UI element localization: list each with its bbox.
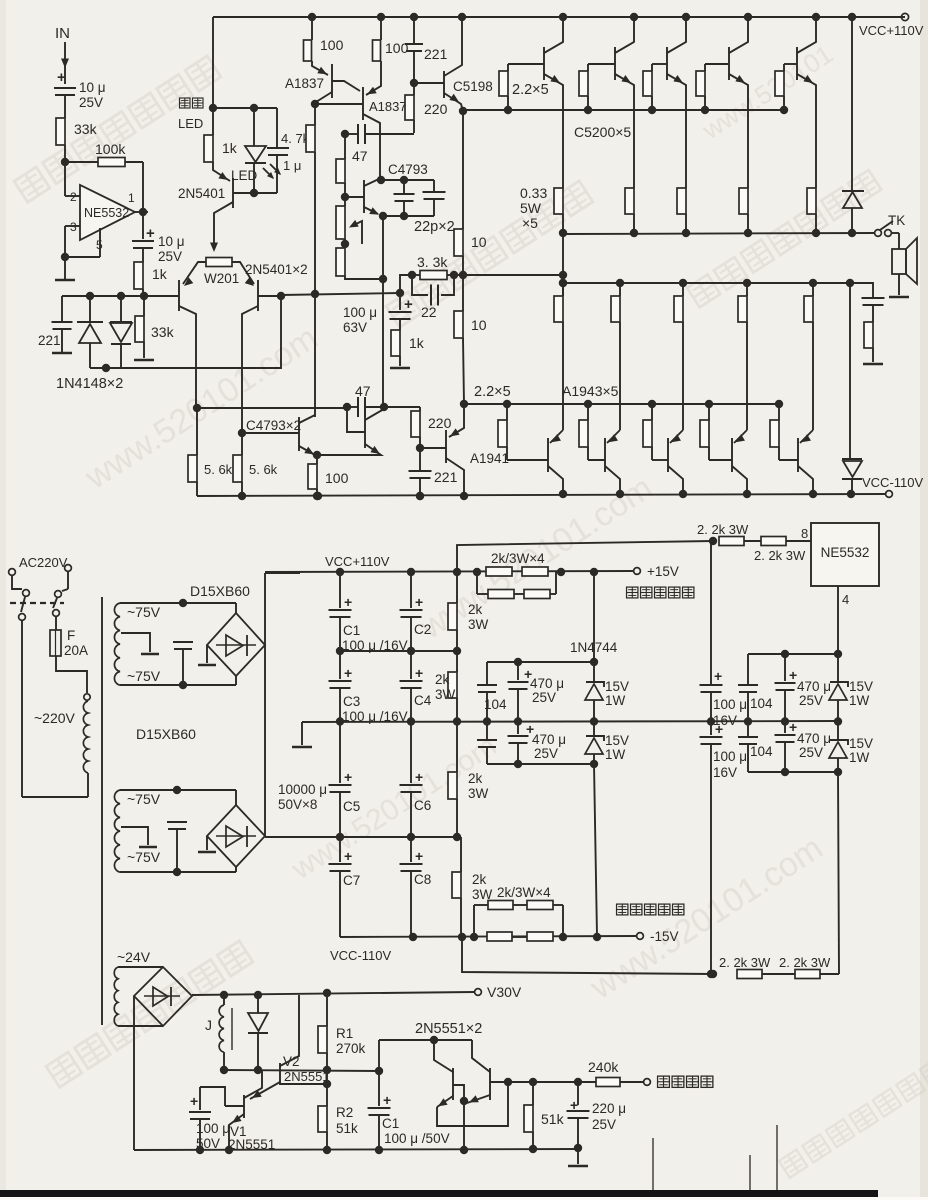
svg-text:47: 47 bbox=[352, 148, 368, 164]
center tap sec1 bbox=[121, 633, 150, 652]
node Vbe multiplier top bbox=[341, 193, 349, 201]
svg-text:25V: 25V bbox=[534, 746, 558, 761]
svg-text:10000 μ: 10000 μ bbox=[278, 782, 327, 797]
resistor 2.2 base Q8 bbox=[507, 64, 509, 71]
svg-text:C2: C2 bbox=[414, 622, 431, 637]
resistor 2.2 base Q17 bbox=[775, 400, 783, 408]
svg-text:+: + bbox=[404, 296, 413, 313]
node V1 emitter ground bbox=[225, 1146, 233, 1154]
wire VAS chain bbox=[344, 134, 346, 159]
transformer core bbox=[101, 597, 103, 1025]
diode LED red bbox=[253, 108, 255, 146]
svg-text:C1: C1 bbox=[382, 1116, 399, 1131]
svg-text:16V: 16V bbox=[713, 765, 737, 780]
svg-text:C3: C3 bbox=[343, 694, 360, 709]
resistor 2k 3W no3 bbox=[456, 722, 458, 772]
fuse F 20A bbox=[55, 617, 57, 630]
zener diode 15V d bbox=[837, 721, 839, 740]
capacitor C4 bank bbox=[410, 651, 412, 679]
svg-text:100k: 100k bbox=[95, 141, 126, 157]
wire rail y654 right bbox=[748, 653, 838, 655]
node LED bias top bbox=[209, 104, 217, 112]
wire negative base rail y404 bbox=[464, 403, 779, 405]
svg-text:R2: R2 bbox=[336, 1105, 353, 1120]
resistor 5.6k left bbox=[193, 404, 201, 412]
svg-text:NE5532: NE5532 bbox=[84, 206, 129, 220]
resistor 2.2 base Q13 bbox=[503, 400, 511, 408]
svg-text:100 μ: 100 μ bbox=[196, 1121, 230, 1136]
LED arrows bbox=[263, 168, 273, 178]
resistor 10 upper bbox=[462, 111, 464, 229]
resistor 0.33 emitter Q15 bbox=[679, 279, 687, 287]
svg-text:A1837: A1837 bbox=[369, 99, 407, 114]
node Zobel junction bbox=[846, 279, 854, 287]
resistor Vbe multiplier lower bbox=[336, 248, 345, 276]
capacitor sec1 bbox=[173, 641, 193, 643]
svg-text:104: 104 bbox=[484, 697, 507, 712]
wire zener rail top bbox=[487, 661, 594, 663]
wire Q2 collector to C4793 base bbox=[242, 432, 299, 434]
svg-text:C5: C5 bbox=[343, 799, 360, 814]
node pin5 tie bbox=[61, 253, 69, 261]
transistor Qp2 2N5551 bbox=[489, 1068, 491, 1100]
resistor 1k LED bbox=[212, 108, 214, 135]
svg-text:4: 4 bbox=[842, 592, 849, 607]
transistor Qp1 2N5551 bbox=[452, 1068, 454, 1100]
svg-text:+: + bbox=[344, 594, 352, 610]
node Vbe multiplier mid bbox=[341, 240, 349, 248]
svg-text:2k: 2k bbox=[472, 872, 487, 887]
Zobel network RC bbox=[850, 283, 873, 297]
svg-text:15V: 15V bbox=[605, 733, 629, 748]
node diode tail junction bbox=[102, 364, 110, 372]
svg-text:-15V: -15V bbox=[650, 929, 679, 944]
svg-text:~220V: ~220V bbox=[34, 710, 76, 726]
diode relay flyback bbox=[254, 991, 262, 999]
resistor 2k 3W no4 bbox=[460, 837, 462, 872]
svg-text:C7: C7 bbox=[343, 873, 360, 888]
svg-text:V30V: V30V bbox=[487, 984, 522, 1000]
capacitor C1 bank 100u/16V bbox=[339, 572, 341, 608]
svg-text:2k: 2k bbox=[468, 602, 483, 617]
svg-text:3. 3k: 3. 3k bbox=[417, 254, 448, 270]
svg-text:+: + bbox=[57, 69, 66, 86]
svg-text:C6: C6 bbox=[414, 798, 431, 813]
resistor 2k/3W bottom parallel pair bbox=[473, 905, 475, 937]
wire relay rail bbox=[224, 1070, 379, 1071]
wire top VCC+110V bus bbox=[213, 16, 905, 18]
node mid 10ohm bbox=[462, 256, 464, 275]
capacitor C3 bank 100u/16V bbox=[339, 651, 341, 679]
svg-text:VCC-110V: VCC-110V bbox=[330, 948, 392, 963]
svg-text:5. 6k: 5. 6k bbox=[204, 462, 233, 477]
node bus A bbox=[308, 13, 316, 21]
center tap sec2 bbox=[121, 827, 148, 845]
capacitor 104 c bbox=[747, 654, 749, 684]
relay contact TK bbox=[875, 230, 882, 237]
diode D2 1N4148 bbox=[117, 292, 125, 300]
svg-text:+: + bbox=[415, 848, 423, 864]
capacitor 470u/25V c bbox=[784, 654, 786, 681]
svg-text:270k: 270k bbox=[336, 1041, 366, 1056]
svg-text:~75V: ~75V bbox=[127, 668, 161, 684]
capacitor 47 lower bbox=[357, 397, 359, 417]
svg-text:1N4744: 1N4744 bbox=[570, 640, 618, 655]
wire 100u/16V column bbox=[710, 541, 712, 684]
label signal input board 2 bbox=[617, 904, 628, 915]
node driver collector bbox=[380, 403, 388, 411]
relay coil J bbox=[220, 991, 228, 999]
svg-text:10 μ: 10 μ bbox=[79, 80, 106, 95]
secondary winding 75V lower bbox=[114, 790, 120, 872]
wire pin4 bbox=[837, 586, 839, 654]
svg-text:1k: 1k bbox=[222, 140, 238, 156]
svg-text:104: 104 bbox=[750, 696, 773, 711]
svg-text:F: F bbox=[67, 628, 75, 643]
svg-text:+: + bbox=[415, 769, 423, 785]
capacitor 104 b lower bbox=[486, 721, 488, 739]
svg-text:1W: 1W bbox=[849, 750, 870, 765]
svg-text:2N5551×2: 2N5551×2 bbox=[415, 1021, 482, 1037]
wire input clamp rail bbox=[62, 295, 144, 297]
svg-text:1W: 1W bbox=[849, 693, 870, 708]
svg-text:1N4148×2: 1N4148×2 bbox=[56, 376, 123, 392]
wire base Q11 bbox=[705, 63, 729, 65]
svg-text:25V: 25V bbox=[799, 745, 823, 760]
wire secondary1 bottom bbox=[120, 684, 236, 686]
zener diode 15V a bbox=[593, 662, 595, 682]
svg-text:221: 221 bbox=[424, 46, 448, 62]
resistor 220 driver bbox=[413, 83, 415, 95]
svg-text:1W: 1W bbox=[605, 747, 626, 762]
svg-text:221: 221 bbox=[434, 469, 458, 485]
wire output rail negative-side bbox=[563, 282, 850, 284]
svg-text:1k: 1k bbox=[409, 335, 425, 351]
wire zener rail bottom bbox=[487, 763, 594, 765]
label hongse LED (red LED) bbox=[180, 98, 191, 108]
svg-text:470 μ: 470 μ bbox=[532, 732, 566, 747]
resistor 4.7k bbox=[314, 104, 316, 125]
svg-text:5. 6k: 5. 6k bbox=[249, 462, 278, 477]
ground bridge1 bbox=[206, 645, 208, 663]
svg-text:+: + bbox=[415, 665, 423, 681]
transistor Q2 2N5401 diff pair right bbox=[257, 280, 259, 311]
svg-text:+: + bbox=[344, 665, 352, 681]
wire base Q9 bbox=[588, 63, 615, 65]
svg-text:VCC+110V: VCC+110V bbox=[859, 23, 924, 38]
resistor 0.33 emitter Q10 bbox=[677, 188, 686, 214]
svg-text:221: 221 bbox=[38, 333, 61, 348]
svg-text:+: + bbox=[714, 668, 722, 684]
resistor 100 mirror left bbox=[311, 17, 313, 40]
svg-text:33k: 33k bbox=[151, 324, 175, 340]
wire -15 zener column bbox=[594, 764, 597, 936]
node C1 top bbox=[375, 1067, 383, 1075]
svg-text:104: 104 bbox=[750, 744, 773, 759]
svg-text:100 μ /50V: 100 μ /50V bbox=[384, 1131, 450, 1146]
capacitor 10u/25V output coupling bbox=[142, 212, 144, 239]
svg-text:47: 47 bbox=[355, 383, 371, 399]
wire base Q8 bbox=[508, 63, 544, 65]
svg-text:220: 220 bbox=[424, 101, 448, 117]
capacitor 22p first bbox=[403, 180, 405, 194]
svg-text:5W: 5W bbox=[520, 200, 542, 216]
resistor 0.33 emitter Q14 bbox=[616, 279, 624, 287]
wire Q1 base bbox=[144, 295, 179, 297]
resistor 1k lower bbox=[391, 330, 400, 356]
node output spine lower rail bbox=[559, 279, 567, 287]
terminal VCC-110V bbox=[886, 491, 893, 498]
svg-text:3W: 3W bbox=[435, 687, 456, 702]
svg-text:~75V: ~75V bbox=[127, 849, 161, 865]
svg-text:+: + bbox=[715, 721, 723, 737]
resistor 33k input bbox=[56, 118, 65, 145]
svg-text:2k/3W×4: 2k/3W×4 bbox=[497, 885, 551, 900]
resistor 0.33 emitter Q16 bbox=[743, 279, 751, 287]
resistor 2k/3W bottom pair inline bbox=[487, 932, 512, 941]
wire sense rail bbox=[508, 1081, 596, 1083]
zener diode 15V b lower bbox=[593, 721, 595, 736]
wire bridge outputs to rails bbox=[264, 573, 266, 837]
node base-rail/1k junction bbox=[140, 292, 148, 300]
wire base Q15 bbox=[652, 459, 668, 461]
terminal V30V bbox=[475, 989, 482, 996]
wire base Q17 bbox=[779, 459, 798, 461]
svg-text:NE5532: NE5532 bbox=[821, 545, 870, 560]
node Qp1 base / Qp2 emitter bbox=[460, 1097, 468, 1105]
capacitor 100u/50V servo bbox=[199, 1087, 201, 1110]
resistor 51k sense bbox=[532, 1082, 534, 1105]
node op-amp inverting input junction bbox=[61, 158, 69, 166]
svg-text:10: 10 bbox=[471, 317, 487, 333]
transistor Q16 A1943 bbox=[731, 438, 733, 472]
svg-text:2k: 2k bbox=[468, 771, 483, 786]
svg-text:TK: TK bbox=[888, 213, 905, 228]
catch diode negative rail bbox=[842, 458, 862, 460]
transistor Q14 A1943 bbox=[604, 438, 606, 472]
svg-text:+: + bbox=[789, 667, 797, 683]
capacitor 22p second bbox=[433, 180, 435, 192]
wire rail y772 right bbox=[748, 771, 838, 773]
resistor 2.2 base Q15 bbox=[648, 400, 656, 408]
secondary winding 75V upper bbox=[114, 603, 120, 685]
svg-text:C4793: C4793 bbox=[388, 162, 428, 177]
wire mirror to VAS base bbox=[315, 103, 363, 105]
resistor R1 270k bbox=[323, 989, 331, 997]
wire negative catch diode bbox=[849, 283, 851, 458]
svg-text:C5200×5: C5200×5 bbox=[574, 124, 631, 140]
capacitor C2 bank bbox=[410, 572, 412, 608]
svg-text:C5198: C5198 bbox=[453, 79, 493, 94]
resistor 47 chain bbox=[336, 159, 345, 183]
svg-text:50V×8: 50V×8 bbox=[278, 797, 317, 812]
svg-text:IN: IN bbox=[55, 25, 70, 42]
node sec1 cap top bbox=[179, 599, 187, 607]
svg-text:22: 22 bbox=[421, 304, 437, 320]
wire VCC+110V filter bus bbox=[265, 571, 633, 572]
node cap47b left bbox=[343, 403, 351, 411]
resistor 2k 3W no1 bbox=[456, 572, 458, 603]
svg-text:25V: 25V bbox=[158, 249, 182, 264]
wire to C5198 base bbox=[414, 82, 444, 84]
svg-text:2. 2k 3W: 2. 2k 3W bbox=[754, 548, 806, 563]
node A1941 base bbox=[416, 444, 424, 452]
wire bias node to cap branch bbox=[213, 107, 277, 109]
node 220u ground bbox=[574, 1144, 582, 1152]
svg-text:25V: 25V bbox=[592, 1117, 616, 1132]
svg-text:2.2×5: 2.2×5 bbox=[474, 384, 511, 400]
svg-text:AC220V: AC220V bbox=[19, 555, 68, 570]
wire bridge3 negative leg bbox=[133, 996, 135, 1150]
svg-text:1W: 1W bbox=[605, 693, 626, 708]
svg-text:51k: 51k bbox=[336, 1121, 358, 1136]
transistor Q11 C5200 bbox=[728, 47, 730, 80]
svg-text:100 μ: 100 μ bbox=[713, 749, 747, 764]
svg-text:0.33: 0.33 bbox=[520, 185, 547, 201]
svg-text:C4793×2: C4793×2 bbox=[246, 418, 301, 433]
wire VAS collector bbox=[382, 279, 384, 407]
svg-text:25V: 25V bbox=[532, 690, 556, 705]
capacitor C1 100u/50V bbox=[378, 1071, 380, 1106]
wire output base rail y110 bbox=[463, 109, 784, 111]
op-amp U1 NE5532 bbox=[80, 185, 135, 240]
trimmer resistor Vbe multiplier bbox=[336, 206, 345, 239]
svg-text:33k: 33k bbox=[74, 121, 98, 137]
svg-text:+15V: +15V bbox=[647, 564, 679, 579]
wire A1941 base bbox=[420, 447, 446, 449]
transistor Q13 A1943 bbox=[547, 438, 549, 472]
svg-text:~24V: ~24V bbox=[117, 949, 151, 965]
svg-text:20A: 20A bbox=[64, 643, 88, 658]
wire secondary1 top bbox=[120, 602, 236, 604]
resistor 10 lower bbox=[462, 275, 464, 311]
wire lower driver base rail bbox=[197, 407, 347, 409]
wire secondary2 top bbox=[120, 789, 236, 791]
node sec1 cap bottom bbox=[179, 681, 187, 689]
svg-text:2k: 2k bbox=[435, 672, 450, 687]
wire pair top rail bbox=[379, 1039, 472, 1041]
resistor 2k 3W no2 bbox=[456, 651, 458, 672]
svg-text:VCC-110V: VCC-110V bbox=[862, 475, 924, 490]
capacitor C7 bank bbox=[339, 837, 341, 862]
wire mains left leg bbox=[21, 621, 23, 797]
loop to NE5532 pin8 bbox=[457, 541, 713, 572]
node driver emitter bbox=[459, 107, 467, 115]
node A1941 emitter rail bbox=[460, 400, 468, 408]
svg-text:C8: C8 bbox=[414, 872, 431, 887]
svg-text:2k/3W×4: 2k/3W×4 bbox=[491, 551, 545, 566]
svg-text:22p×2: 22p×2 bbox=[414, 219, 455, 235]
node mirror collector bbox=[311, 100, 319, 108]
resistor 2.2 base Q14 bbox=[584, 400, 592, 408]
transistor Q17 A1943 bbox=[797, 438, 799, 472]
svg-text:C1: C1 bbox=[343, 623, 360, 638]
resistor 5.6k right bbox=[238, 429, 246, 437]
resistor 2.2 base Q11 bbox=[704, 64, 706, 71]
capacitor 47 VAS bbox=[341, 130, 349, 138]
wire pin3 ground branch bbox=[65, 225, 80, 227]
capacitor 470u/25V a bbox=[517, 662, 519, 680]
transistor Q12 C5200 bbox=[796, 47, 798, 80]
wire +15 zener column bbox=[593, 572, 595, 662]
scan artifact lines bbox=[652, 1138, 654, 1191]
svg-text:A1941: A1941 bbox=[470, 451, 509, 466]
resistor 0.33 emitter Q12 bbox=[807, 188, 816, 214]
svg-text:LED: LED bbox=[231, 168, 258, 183]
node sec2 cap bottom bbox=[173, 868, 181, 876]
wire LED bias column from VCC bus bbox=[212, 17, 214, 108]
wire 220 stub bbox=[384, 406, 420, 408]
svg-text:+: + bbox=[383, 1092, 391, 1108]
svg-text:+: + bbox=[415, 594, 423, 610]
terminal -15V bbox=[637, 933, 644, 940]
svg-text:R1: R1 bbox=[336, 1026, 353, 1041]
wire VCC-110V lv bus bbox=[340, 936, 636, 937]
resistor 2.2 base Q16 bbox=[705, 400, 713, 408]
terminal output midpoint bbox=[644, 1079, 651, 1086]
svg-text:100 μ: 100 μ bbox=[343, 305, 377, 320]
capacitor 104 d bbox=[747, 721, 749, 736]
wire zero rail bbox=[302, 721, 838, 722]
svg-text:D15XB60: D15XB60 bbox=[136, 726, 196, 742]
svg-text:1 μ: 1 μ bbox=[283, 158, 301, 173]
wire feedback down to output bbox=[142, 162, 144, 212]
wire Q2 base to feedback rail bbox=[258, 295, 281, 297]
wire ground rail bottom bbox=[134, 1149, 581, 1150]
node sec2 cap top bbox=[173, 786, 181, 794]
svg-text:15V: 15V bbox=[849, 679, 873, 694]
transistor Q15 A1943 bbox=[667, 438, 669, 472]
wire feedback rail bbox=[400, 275, 412, 293]
node V2 base bbox=[323, 1080, 331, 1088]
wire speaker return bbox=[898, 274, 900, 295]
capacitor 470u/25V b lower bbox=[517, 721, 519, 734]
resistor 100k feedback bbox=[65, 161, 98, 163]
node LED anode bbox=[250, 104, 258, 112]
capacitor 100u/63V bbox=[399, 293, 401, 310]
switch power double pole bbox=[12, 576, 22, 589]
svg-text:15V: 15V bbox=[849, 736, 873, 751]
svg-text:D15XB60: D15XB60 bbox=[190, 583, 250, 599]
resistor 1k to base rail bbox=[134, 262, 143, 289]
svg-text:~75V: ~75V bbox=[127, 604, 161, 620]
svg-text:1k: 1k bbox=[152, 266, 168, 282]
svg-text:25V: 25V bbox=[799, 693, 823, 708]
node sense rail bbox=[504, 1078, 512, 1086]
svg-text:LED: LED bbox=[178, 116, 203, 131]
svg-text:10: 10 bbox=[471, 234, 487, 250]
svg-text:+: + bbox=[146, 225, 155, 242]
wire base Q16 bbox=[709, 459, 732, 461]
wire secondary2 bottom bbox=[120, 871, 236, 873]
svg-text:470 μ: 470 μ bbox=[530, 676, 564, 691]
trimmer W201 bbox=[206, 258, 232, 267]
svg-text:51k: 51k bbox=[541, 1111, 565, 1127]
resistor 2k/3W top parallel pair bbox=[476, 572, 478, 594]
ground zero rail bbox=[301, 722, 303, 745]
resistor 0.33 emitter Q11 bbox=[739, 188, 748, 214]
node loop bbox=[709, 970, 717, 978]
wire pin5 bbox=[99, 228, 101, 257]
resistor 100 mirror right bbox=[377, 13, 385, 21]
wire feedback tap to output spine bbox=[463, 274, 563, 276]
svg-text:+: + bbox=[190, 1093, 198, 1109]
resistor 33k bias lower bbox=[143, 296, 145, 316]
wire mid rail 1 bbox=[340, 650, 457, 652]
svg-text:3W: 3W bbox=[468, 617, 489, 632]
svg-text:1: 1 bbox=[128, 191, 135, 205]
resistor 0.33 emitter Q9 bbox=[625, 188, 634, 214]
